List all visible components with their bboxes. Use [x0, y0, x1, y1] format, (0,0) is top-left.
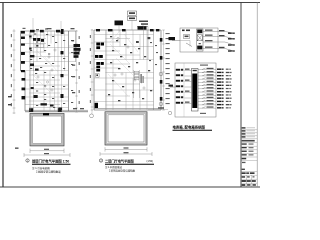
- room label: [155, 64, 157, 65]
- fixture: [144, 56, 146, 57]
- text label: [52, 86, 54, 87]
- text label: [45, 63, 47, 64]
- axis bubble: [159, 102, 163, 106]
- dim text: [90, 75, 91, 78]
- dimension line: [24, 154, 70, 156]
- wall fill: [160, 38, 163, 42]
- text label: [63, 103, 65, 104]
- grid axis: [60, 21, 62, 31]
- panel outline: [175, 63, 216, 117]
- wall fill: [96, 29, 100, 31]
- text label: [34, 34, 36, 35]
- text label: [63, 40, 65, 41]
- title row line: [241, 156, 257, 158]
- text label: [52, 77, 54, 78]
- note: [73, 108, 77, 109]
- role text: [242, 154, 247, 155]
- fixture: [118, 100, 120, 101]
- wire: [185, 81, 192, 83]
- dim text: [166, 78, 170, 79]
- room label: [156, 52, 158, 53]
- text label: [44, 72, 46, 73]
- wall fill: [160, 80, 163, 84]
- rev text: [242, 130, 246, 131]
- dimension line: [100, 153, 152, 155]
- branch wire: [203, 31, 218, 33]
- label: [219, 47, 225, 48]
- text label: [36, 91, 38, 92]
- spec text: [185, 102, 190, 103]
- wall fill: [21, 52, 25, 55]
- cell text: [253, 184, 256, 186]
- wall: [29, 74, 69, 76]
- callout WL2: [74, 52, 80, 55]
- wall: [146, 30, 148, 110]
- wall: [21, 51, 47, 53]
- caption underline: [32, 163, 71, 165]
- left label row 3: [176, 80, 180, 82]
- load name: [226, 69, 229, 70]
- dim text: [166, 58, 170, 59]
- branch circuit WL5: [198, 81, 216, 83]
- top wall: [21, 30, 76, 32]
- wire to unit: [225, 49, 234, 52]
- dim text: [90, 88, 91, 91]
- wire spec: [205, 47, 213, 48]
- fixture/label: [50, 105, 54, 107]
- leader: [118, 25, 120, 32]
- wall fill on partition: [29, 36, 31, 38]
- wall fill: [22, 96, 26, 99]
- wire spec: [207, 81, 214, 82]
- wire: [180, 40, 190, 42]
- wall: [29, 107, 69, 109]
- fixture: [132, 92, 134, 93]
- wall: [132, 78, 134, 110]
- busbar box: [192, 69, 199, 112]
- border top: [0, 2, 260, 4]
- fixture: [136, 62, 138, 63]
- circuit label WL13: [217, 107, 221, 108]
- wall: [94, 89, 154, 91]
- circuit label WL12: [217, 104, 221, 105]
- load name: [226, 85, 229, 86]
- cell text: [242, 184, 246, 186]
- wall: [94, 67, 120, 69]
- load name: [226, 94, 229, 95]
- text label: [53, 107, 55, 108]
- border right: [256, 3, 258, 188]
- wall: [61, 31, 63, 111]
- wire to unit: [225, 42, 234, 45]
- meter box system diagram: [169, 28, 235, 52]
- wall: [106, 46, 154, 48]
- text label: [30, 50, 32, 51]
- fixture: [120, 56, 122, 57]
- left label row 7: [176, 102, 180, 104]
- dimension chain left: [13, 29, 15, 114]
- wire spec: [207, 94, 214, 95]
- wiring: [108, 74, 128, 96]
- wall: [29, 38, 46, 40]
- branch circuit WL9: [198, 94, 216, 96]
- lamp symbol: [121, 73, 123, 75]
- wire spec: [205, 35, 213, 36]
- role text: [242, 147, 247, 148]
- col line: [251, 175, 253, 187]
- dim text: [79, 90, 80, 93]
- wall: [94, 34, 154, 36]
- meter unit column: [197, 29, 204, 51]
- wire: [185, 86, 192, 88]
- wall: [49, 71, 51, 112]
- appliance label: [101, 43, 104, 46]
- fixture: [118, 68, 120, 69]
- wiring: [116, 58, 142, 84]
- circuit label WL4: [217, 78, 221, 79]
- wire spec: [207, 74, 214, 75]
- text label: [71, 76, 73, 77]
- wall: [106, 63, 131, 65]
- wall: [36, 31, 38, 62]
- row line: [241, 171, 257, 173]
- wall: [29, 84, 69, 86]
- floor plan 1: ground floor power plan: [8, 18, 88, 114]
- wall: [64, 31, 66, 71]
- wall fill: [61, 51, 64, 54]
- left wall lower: [24, 71, 26, 111]
- wall: [106, 54, 141, 56]
- incoming main wire: [170, 86, 176, 88]
- right wall: [68, 31, 70, 111]
- fixture: [138, 48, 140, 49]
- svg-text:二层门厅电气平面图: 二层门厅电气平面图: [105, 158, 134, 163]
- appliance block: [37, 38, 40, 41]
- dim text: [90, 35, 91, 38]
- svg-text:2.照明支线穿管沿墙暗敷: 2.照明支线穿管沿墙暗敷: [109, 169, 136, 173]
- wire spec: [205, 30, 213, 31]
- rev text: [242, 136, 246, 137]
- caption of system diagram: [173, 124, 213, 130]
- switch box: [96, 74, 100, 78]
- branch circuit WL4: [198, 78, 216, 80]
- wall fill: [30, 30, 35, 33]
- wall: [43, 31, 45, 52]
- branch circuit WL8: [198, 91, 216, 93]
- shaft box: [134, 74, 139, 77]
- dimension line: [105, 149, 147, 151]
- dim text 5400: [124, 152, 129, 153]
- rev row line: [241, 132, 257, 134]
- text label: [46, 34, 48, 35]
- left label row 2: [176, 74, 180, 76]
- wire spec: [207, 103, 214, 104]
- label: [186, 30, 190, 32]
- wall: [33, 31, 35, 71]
- rev text: [242, 133, 246, 134]
- dim text 4200: [124, 147, 129, 148]
- wall fill: [40, 30, 44, 33]
- dimension line: [30, 150, 64, 152]
- role text: [242, 151, 247, 152]
- wall: [139, 90, 141, 110]
- text label: [30, 68, 32, 69]
- text label: [40, 67, 42, 68]
- wall: [47, 31, 49, 48]
- wall: [21, 61, 76, 63]
- dim text: [79, 62, 80, 65]
- appliance label: [96, 43, 100, 46]
- panel inner divider: [183, 63, 185, 117]
- wall fill: [21, 44, 25, 46]
- branch wire: [203, 41, 218, 43]
- axis bubble: [168, 111, 171, 114]
- panel bottom note: [200, 113, 206, 114]
- rev text: [242, 127, 246, 128]
- dim text: [11, 64, 12, 67]
- incoming label: [169, 85, 174, 87]
- grid axis: [32, 18, 34, 31]
- wall: [21, 34, 69, 36]
- mark: [72, 76, 75, 77]
- wall: [106, 72, 154, 74]
- wire: [218, 31, 225, 33]
- courtyard outer wall: [30, 114, 64, 146]
- left label row 6: [176, 96, 180, 98]
- dim text: [79, 36, 80, 39]
- wall fill: [56, 30, 60, 33]
- left wall upper: [20, 31, 22, 71]
- wall: [112, 30, 114, 51]
- window label: [36, 29, 39, 30]
- row line: [241, 174, 257, 176]
- dim text: [166, 68, 170, 69]
- dim text 3300: [44, 149, 49, 150]
- title row line: [241, 149, 257, 151]
- dim text: [11, 103, 12, 106]
- fixture: [110, 62, 112, 63]
- wire: [218, 36, 225, 38]
- courtyard inner wall: [33, 116, 62, 143]
- wall: [29, 100, 69, 102]
- unit bottom block: [197, 46, 202, 50]
- dim text: [11, 34, 12, 37]
- leader: [131, 20, 133, 30]
- wiring spec: [139, 21, 148, 23]
- window label: [45, 28, 48, 29]
- cell text: [242, 176, 245, 178]
- wall: [94, 101, 154, 103]
- branch circuit WL7: [198, 88, 216, 90]
- wall: [106, 38, 131, 40]
- appliance label: [99, 55, 103, 58]
- leader label: [158, 107, 164, 108]
- branch wire: [203, 48, 218, 50]
- text label: [48, 45, 50, 46]
- wire spec: [207, 100, 214, 101]
- dim text 4500: [44, 153, 49, 154]
- courtyard inner wall: [108, 115, 144, 142]
- wall fill: [61, 94, 64, 98]
- wall fill: [21, 61, 25, 64]
- svg-text:注:1.引自电表箱: 注:1.引自电表箱: [32, 166, 50, 170]
- axis bubble: [159, 72, 163, 76]
- dim text: [11, 74, 12, 77]
- wall: [29, 47, 76, 49]
- wall: [21, 70, 69, 72]
- wall fill: [21, 31, 25, 34]
- wall fill: [122, 29, 126, 31]
- unit top block: [197, 30, 202, 34]
- wall: [25, 88, 69, 90]
- unit label: [228, 44, 232, 45]
- callout box WL: [128, 16, 137, 20]
- wall: [106, 83, 141, 85]
- text label: [52, 36, 54, 37]
- dim text: [166, 73, 170, 74]
- wall: [21, 43, 47, 45]
- courtyard of plan 1: [15, 113, 70, 157]
- branch circuit WL2: [198, 72, 216, 74]
- wire spec: [207, 90, 214, 91]
- rev row line: [241, 129, 257, 131]
- text label: [63, 68, 65, 69]
- lamp symbol: [51, 69, 53, 71]
- branch circuit WL13: [198, 107, 216, 109]
- label Wh: [182, 30, 185, 32]
- wall: [54, 31, 56, 62]
- appliance label: [96, 46, 100, 49]
- wall fill: [29, 108, 33, 111]
- unit label: [228, 33, 232, 34]
- left wall: [93, 30, 95, 110]
- appliance label: [95, 55, 99, 58]
- fixture: [124, 44, 126, 45]
- name text: [249, 143, 254, 144]
- courtyard of plan 2: [100, 107, 168, 156]
- wiring: [36, 50, 52, 66]
- wall fill: [156, 29, 159, 31]
- lamp symbol: [51, 89, 53, 91]
- wire: [218, 48, 225, 50]
- caption underline: [105, 163, 154, 165]
- wall: [119, 30, 121, 47]
- leader: [69, 45, 74, 47]
- drawing frame: [0, 3, 260, 188]
- dim text: [11, 44, 12, 47]
- svg-text:电表箱, 配电箱系统图: 电表箱, 配电箱系统图: [173, 124, 206, 129]
- drawing title text: [242, 172, 246, 174]
- fixture/label: [30, 64, 34, 67]
- appliance label: [96, 69, 100, 72]
- right wall upper ext: [75, 31, 77, 62]
- wire: [185, 103, 192, 105]
- wiring spec: [141, 23, 148, 25]
- spec text: [185, 91, 190, 92]
- fixture: [116, 40, 118, 41]
- wall fill: [160, 97, 163, 101]
- fixture: [110, 36, 112, 37]
- wall: [29, 56, 69, 58]
- meter box outline: [180, 28, 218, 52]
- wire spec: [207, 77, 214, 78]
- wire spec: [207, 97, 214, 98]
- callout AL1: [74, 44, 81, 47]
- index bubble: [99, 159, 102, 162]
- fixture/label: [41, 103, 47, 105]
- wire: [189, 41, 191, 47]
- cell text: [252, 180, 256, 182]
- lamp symbol: [48, 56, 50, 58]
- wire: [185, 92, 192, 94]
- window label: [47, 28, 52, 29]
- text label: [52, 63, 54, 64]
- shaft box: [134, 77, 139, 80]
- stair top wall: [137, 26, 148, 28]
- load name: [226, 72, 229, 73]
- dimension chain right of plan 1: [69, 30, 85, 112]
- window label: [71, 28, 75, 29]
- text label: [63, 86, 65, 87]
- dim text: [11, 54, 12, 57]
- lamp symbol: [54, 49, 56, 51]
- leader: [69, 52, 74, 54]
- load name: [226, 107, 229, 108]
- index bubble: [26, 159, 29, 162]
- text label: [71, 64, 73, 65]
- axis bubble: [90, 114, 94, 118]
- fixture: [122, 86, 124, 87]
- svg-text:(1:50): (1:50): [147, 160, 154, 163]
- stair wall fill: [138, 26, 147, 29]
- text label: [71, 40, 73, 41]
- wall: [125, 73, 127, 111]
- breaker symbol: [186, 43, 192, 47]
- load name: [226, 81, 229, 82]
- leader: [142, 25, 144, 30]
- rev row line: [241, 138, 257, 140]
- svg-text:2.线路穿管沿墙暗敷设: 2.线路穿管沿墙暗敷设: [36, 170, 61, 174]
- border left: [2, 3, 4, 188]
- circuit label WL10: [217, 97, 221, 98]
- wire spec: [205, 40, 213, 41]
- fixture/label: [35, 69, 39, 71]
- circuit label WL7: [217, 88, 221, 89]
- wire spec: [207, 68, 214, 69]
- rev row line: [241, 135, 257, 137]
- wall: [43, 71, 45, 112]
- wall fill on partition: [29, 48, 31, 50]
- wall fill: [22, 88, 26, 91]
- unit label: [228, 50, 232, 51]
- text label: [71, 52, 73, 53]
- fixture/label: [31, 87, 34, 89]
- wall fill: [21, 37, 25, 40]
- company name row: [242, 140, 255, 142]
- room label: [155, 45, 157, 46]
- wire to unit: [225, 37, 234, 39]
- dim text: [11, 94, 12, 97]
- col line: [245, 175, 247, 187]
- text label: [36, 82, 38, 83]
- wiring: [44, 56, 58, 72]
- level label: [8, 104, 12, 105]
- appliance label: [96, 62, 100, 65]
- dim text: [166, 48, 170, 49]
- text label: [44, 86, 46, 87]
- wire: [218, 41, 225, 43]
- wall: [94, 50, 120, 52]
